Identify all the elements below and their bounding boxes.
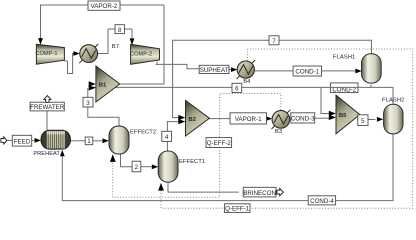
wire VAPOR-2: B1 outlet up over to COMP-1 inlet <box>41 5 165 84</box>
svg-text:2: 2 <box>135 164 139 171</box>
svg-text:FLASH1: FLASH1 <box>333 54 355 60</box>
export glyph FREWATER <box>44 96 51 103</box>
wire recycle: FLASH2 bottom to COND-4 to PREHEAT <box>62 134 393 201</box>
arrowhead into B5 lower <box>329 115 336 120</box>
mixer B5 <box>336 95 360 134</box>
svg-text:B5: B5 <box>339 113 347 119</box>
compressor COMP-2 <box>130 44 160 64</box>
stream label 7 <box>269 36 279 45</box>
wire B4 to COND-1 to FLASH1 <box>254 70 293 72</box>
wire FREWATER: PREHEAT top up <box>46 111 48 130</box>
wire stream 4: EFFECT1 vapor via box 4 to B2 <box>166 141 168 151</box>
wire COMP-2 outlet to SUPHEAT <box>156 62 200 69</box>
svg-text:BRINECON: BRINECON <box>243 190 276 197</box>
wire stream 2: EFFECT2 bottom to EFFECT1 <box>121 154 133 167</box>
svg-text:5: 5 <box>361 118 365 125</box>
svg-text:EFFECT1: EFFECT1 <box>179 159 205 165</box>
vessel FLASH1 <box>333 54 381 83</box>
arrowhead into EFFECT1 left <box>152 164 158 169</box>
arrowhead into B1 upper <box>89 81 96 86</box>
wire COND-2 branch down to B5 upper <box>321 87 329 113</box>
heat exchanger PREHEAT <box>33 130 70 157</box>
arrowhead into FLASH1 left <box>355 69 361 74</box>
svg-text:4: 4 <box>165 134 169 141</box>
heat stream Q-EFF-2 dashed: B3 to EFFECT2 <box>113 94 281 198</box>
svg-text:B2: B2 <box>188 117 196 123</box>
svg-text:FLASH2: FLASH2 <box>382 98 404 104</box>
arrowhead into B7 left <box>73 51 79 56</box>
heat label Q-EFF-1 <box>224 204 250 213</box>
svg-text:COMP-1: COMP-1 <box>35 51 57 57</box>
wire COMP-1 outlet to B7 <box>64 54 75 74</box>
wire FLASH1 bottom stub <box>370 85 372 88</box>
arrowhead into COMP-2 top <box>130 38 135 45</box>
stream label 8 <box>115 25 124 34</box>
svg-text:VAPOR-1: VAPOR-1 <box>235 116 262 123</box>
arrowhead into B1 lower <box>89 85 96 90</box>
export glyph BRINECON <box>277 189 284 196</box>
svg-text:8: 8 <box>118 27 122 34</box>
arrowhead into PREHEAT bottom <box>60 150 65 156</box>
svg-text:7: 7 <box>272 38 276 45</box>
svg-text:FEED: FEED <box>14 138 31 145</box>
svg-text:VAPOR-2: VAPOR-2 <box>91 3 118 10</box>
arrowhead into FLASH2 left <box>377 117 383 122</box>
svg-text:Q-EFF-1: Q-EFF-1 <box>225 206 250 213</box>
svg-text:1: 1 <box>87 138 91 145</box>
stream label COND-4 <box>308 196 335 205</box>
svg-text:EFFECT2: EFFECT2 <box>130 130 156 136</box>
arrowhead into COMP-1 top <box>38 38 43 45</box>
arrowhead into B5 upper <box>329 111 336 116</box>
wire B7 to stream 8 to COMP-2 <box>98 29 115 54</box>
heat label Q-EFF-2 <box>206 138 232 148</box>
svg-text:PREHEAT: PREHEAT <box>33 151 60 157</box>
import glyph FEED <box>1 137 7 144</box>
stream label COND-1 <box>293 66 321 76</box>
svg-text:COMP-2: COMP-2 <box>130 52 152 58</box>
wire brine: EFFECT1 bottom to BRINECON <box>168 182 239 192</box>
heater B3 <box>272 110 291 135</box>
heater B4 <box>237 60 256 85</box>
wire stream 7: FLASH1 vapor to B2 <box>173 40 372 117</box>
vessel EFFECT1 <box>158 151 205 182</box>
stream label 1 <box>85 137 93 145</box>
svg-text:3: 3 <box>86 100 90 107</box>
svg-text:SUPHEAT: SUPHEAT <box>200 67 229 74</box>
svg-text:FREWATER: FREWATER <box>30 104 65 111</box>
wire FEED line <box>7 139 13 141</box>
svg-text:B1: B1 <box>99 83 107 89</box>
stream label 3 <box>83 97 93 107</box>
svg-text:Q-EFF-2: Q-EFF-2 <box>207 140 232 147</box>
wire B3 to COND-3 to B5 <box>290 118 291 120</box>
stream label VAPOR-2 <box>88 1 120 10</box>
compressor COMP-1 <box>35 44 64 64</box>
wire stream 6: FLASH2 vapor long line to B1 <box>89 87 393 104</box>
stream label SUPHEAT <box>199 65 229 74</box>
arrowhead into B2 lower <box>178 119 185 124</box>
svg-text:COND-1: COND-1 <box>295 69 319 76</box>
stream label 2 <box>132 161 141 172</box>
mixer B2 <box>186 100 210 136</box>
svg-text:B3: B3 <box>275 129 283 135</box>
svg-text:6: 6 <box>235 86 239 93</box>
stream label FEED <box>12 135 31 146</box>
wire stream 5: B5 outlet to FLASH2 <box>357 119 375 121</box>
vessel FLASH2 <box>382 98 404 134</box>
arrowhead into B3 left <box>266 116 272 121</box>
wire VAPOR-1: B2 outlet to B3 <box>209 118 230 120</box>
stream label COND-2 <box>329 83 359 94</box>
arrowhead into PREHEAT left <box>35 138 41 143</box>
svg-text:B4: B4 <box>243 79 251 85</box>
stream label VAPOR-1 <box>230 113 267 124</box>
wire stream 8 to COMP-2 top <box>124 29 132 39</box>
heater B7 <box>79 44 119 63</box>
arrowhead into B2 upper <box>178 115 185 120</box>
stream label 5 <box>358 115 368 126</box>
stream label FREWATER <box>30 102 65 111</box>
arrowhead into EFFECT2 left <box>102 138 108 143</box>
mixer B1 <box>96 66 120 102</box>
arrowhead Q-EFF-1 into EFFECT1 bottom <box>158 183 164 191</box>
arrowhead Q-EFF-2 into EFFECT2 bottom <box>110 154 116 162</box>
arrowhead into B4 left <box>229 69 231 71</box>
stream label BRINECON <box>243 187 276 197</box>
svg-text:COND-3: COND-3 <box>291 116 315 123</box>
stream label COND-3 <box>291 113 315 123</box>
stream label 4 <box>162 131 172 141</box>
heat stream Q-EFF-1 dashed: B4 to EFFECT1 <box>161 49 413 208</box>
wire stream 1: PREHEAT to EFFECT2 <box>70 140 85 142</box>
vessel EFFECT2 <box>109 126 156 154</box>
stream label 6 <box>232 83 242 92</box>
wire stream 3: EFFECT2 vapor via box 3 to B1 <box>88 97 119 126</box>
svg-text:B7: B7 <box>112 44 119 50</box>
svg-text:COND-4: COND-4 <box>310 198 334 205</box>
